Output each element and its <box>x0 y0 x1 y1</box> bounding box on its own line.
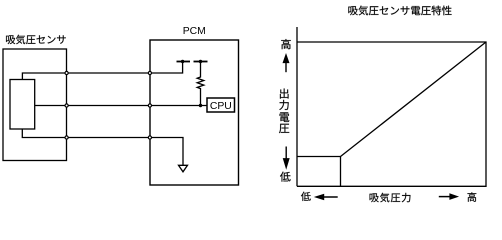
svg-text:CPU: CPU <box>210 101 232 112</box>
svg-text:PCM: PCM <box>183 26 206 37</box>
